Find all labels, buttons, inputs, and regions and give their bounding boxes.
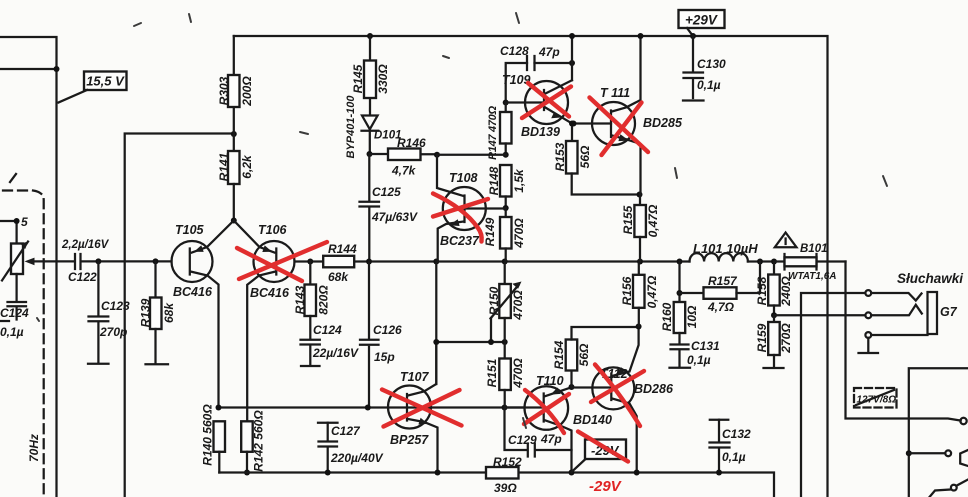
wire feedback line from R303/R141 node bbox=[125, 131, 237, 497]
resistor R142 bbox=[241, 410, 265, 476]
svg-text:0,47Ω: 0,47Ω bbox=[645, 275, 659, 308]
svg-text:470Ω: 470Ω bbox=[511, 290, 525, 321]
svg-text:0,47Ω: 0,47Ω bbox=[646, 204, 660, 237]
transistor T112 bbox=[572, 324, 674, 476]
red X over T108 bbox=[433, 194, 488, 242]
svg-text:C124: C124 bbox=[313, 323, 342, 337]
svg-text:T 111: T 111 bbox=[600, 86, 630, 100]
diode D101 bbox=[345, 95, 402, 159]
capacitor C123 bbox=[89, 261, 109, 362]
svg-text:R151: R151 bbox=[485, 358, 499, 387]
svg-text:22µ/16V: 22µ/16V bbox=[312, 346, 359, 360]
capacitor C125 bbox=[360, 154, 418, 262]
svg-text:15p: 15p bbox=[374, 350, 395, 364]
capacitor C129 bbox=[505, 408, 572, 457]
svg-text:68k: 68k bbox=[328, 270, 349, 284]
svg-text:BC416: BC416 bbox=[250, 286, 290, 300]
wire T107 collector net to R150/R151 bbox=[433, 262, 507, 385]
resistor R149 bbox=[483, 208, 526, 262]
svg-text:270p: 270p bbox=[99, 325, 127, 339]
svg-text:R148: R148 bbox=[487, 166, 501, 195]
resistor R156 bbox=[620, 262, 659, 327]
ground bbox=[764, 367, 784, 369]
svg-text:B101: B101 bbox=[800, 243, 828, 255]
headphone jack G7 bbox=[865, 290, 937, 351]
svg-text:C122: C122 bbox=[68, 270, 97, 284]
svg-text:R141: R141 bbox=[217, 152, 231, 181]
svg-text:330Ω: 330Ω bbox=[376, 64, 390, 94]
svg-text:R149: R149 bbox=[483, 217, 497, 246]
svg-text:R160: R160 bbox=[660, 302, 674, 331]
label Sluchawki bbox=[897, 271, 963, 286]
svg-text:R156: R156 bbox=[620, 276, 634, 305]
svg-text:BD285: BD285 bbox=[643, 116, 683, 130]
svg-text:0,1µ: 0,1µ bbox=[0, 325, 24, 339]
capacitor C128 bbox=[500, 44, 575, 106]
svg-text:R139: R139 bbox=[139, 298, 153, 327]
svg-text:R146: R146 bbox=[397, 136, 426, 150]
svg-text:R155: R155 bbox=[621, 205, 635, 234]
red X over T109 bbox=[522, 83, 571, 118]
svg-text:R145: R145 bbox=[351, 64, 365, 93]
svg-text:68k: 68k bbox=[162, 302, 176, 323]
svg-text:T107: T107 bbox=[400, 370, 430, 384]
svg-text:470Ω: 470Ω bbox=[512, 218, 526, 249]
resistor R148 bbox=[487, 165, 526, 211]
svg-text:C124: C124 bbox=[0, 306, 29, 320]
svg-text:R303: R303 bbox=[217, 76, 231, 105]
resistor R140 bbox=[201, 404, 226, 473]
svg-text:T106: T106 bbox=[258, 223, 288, 237]
svg-text:R159: R159 bbox=[755, 323, 769, 352]
svg-text:C131: C131 bbox=[691, 339, 720, 353]
wire bottom right switch fragments bbox=[930, 450, 968, 497]
svg-text:BP257: BP257 bbox=[390, 433, 429, 447]
inductor L101 bbox=[690, 241, 778, 265]
svg-text:240Ω: 240Ω bbox=[779, 276, 793, 307]
transistor T111 bbox=[571, 33, 683, 195]
svg-text:220µ/40V: 220µ/40V bbox=[330, 451, 384, 465]
svg-text:2,2µ/16V: 2,2µ/16V bbox=[61, 239, 110, 251]
svg-text:0,1µ: 0,1µ bbox=[697, 78, 721, 92]
svg-text:10Ω: 10Ω bbox=[685, 305, 699, 328]
capacitor C130 bbox=[684, 36, 704, 98]
resistor R141 bbox=[217, 151, 254, 224]
label -29V box bbox=[572, 432, 629, 473]
svg-text:6,2k: 6,2k bbox=[240, 154, 254, 179]
ground bbox=[670, 367, 691, 369]
svg-text:-29V: -29V bbox=[589, 478, 623, 495]
capacitor C124 (0,1µ) bbox=[8, 302, 27, 320]
fuse B101 bbox=[774, 243, 846, 282]
resistor R155 bbox=[621, 195, 660, 262]
capacitor C124 (22µ/16V) bbox=[301, 340, 320, 365]
resistor R159 bbox=[768, 315, 780, 366]
svg-text:BD286: BD286 bbox=[634, 382, 674, 396]
resistor R160 bbox=[660, 262, 699, 344]
svg-text:C130: C130 bbox=[697, 57, 726, 71]
svg-text:56Ω: 56Ω bbox=[577, 343, 591, 366]
ground bbox=[0, 320, 9, 322]
capacitor C122 bbox=[61, 239, 110, 284]
capacitor C132 bbox=[710, 420, 752, 476]
svg-text:C125: C125 bbox=[372, 185, 401, 199]
svg-text:WTAT1,6A: WTAT1,6A bbox=[788, 271, 837, 282]
svg-text:T109: T109 bbox=[502, 73, 531, 87]
capacitor C126 bbox=[360, 262, 402, 408]
ground bbox=[859, 352, 879, 354]
svg-text:47p: 47p bbox=[538, 45, 560, 59]
label 70Hz bbox=[27, 434, 41, 462]
wire top-left corner box bbox=[0, 37, 60, 497]
wire fuse output to bottom connector bbox=[846, 262, 967, 425]
resistor R139 bbox=[150, 261, 162, 362]
svg-text:BYP401-100: BYP401-100 bbox=[345, 95, 357, 159]
svg-text:0,1µ: 0,1µ bbox=[722, 450, 746, 464]
resistor R152 bbox=[486, 455, 522, 495]
svg-text:C127: C127 bbox=[331, 424, 361, 438]
stray scan marks bbox=[37, 13, 887, 428]
svg-text:70Hz: 70Hz bbox=[27, 434, 41, 462]
svg-text:R157: R157 bbox=[708, 274, 738, 288]
svg-text:C128: C128 bbox=[500, 44, 529, 58]
red label -29V bbox=[589, 478, 623, 495]
resistor R154 bbox=[552, 327, 639, 387]
svg-text:1,5k: 1,5k bbox=[512, 168, 526, 193]
svg-text:15,5 V: 15,5 V bbox=[86, 74, 125, 89]
svg-text:4,7Ω: 4,7Ω bbox=[707, 300, 735, 314]
svg-text:BD139: BD139 bbox=[521, 125, 560, 139]
svg-text:L101 10µH: L101 10µH bbox=[693, 241, 758, 256]
resistor R146 bbox=[370, 136, 441, 178]
svg-text:BD140: BD140 bbox=[573, 413, 612, 427]
dashed section boundary bbox=[3, 174, 44, 497]
resistor R147 bbox=[437, 103, 512, 160]
resistor R145 bbox=[351, 33, 390, 115]
resistor R153 bbox=[553, 124, 643, 198]
transistor T106 bbox=[234, 221, 295, 422]
ground bbox=[88, 363, 109, 365]
wire right section connector column bbox=[906, 368, 968, 497]
svg-text:270Ω: 270Ω bbox=[779, 323, 793, 354]
capacitor C127 bbox=[318, 423, 384, 476]
svg-text:R142 560Ω: R142 560Ω bbox=[252, 410, 266, 472]
label 15,5V bbox=[59, 72, 127, 103]
svg-text:4,7k: 4,7k bbox=[391, 164, 417, 178]
svg-text:200Ω: 200Ω bbox=[240, 76, 254, 107]
wire mid signal/output rail bbox=[34, 258, 690, 264]
svg-text:Słuchawki: Słuchawki bbox=[897, 271, 963, 286]
red X over T110 bbox=[524, 390, 569, 433]
svg-text:47p: 47p bbox=[540, 432, 562, 446]
svg-text:39Ω: 39Ω bbox=[494, 481, 517, 495]
label 127V/8 ohm box bbox=[854, 388, 897, 408]
svg-text:BC237: BC237 bbox=[440, 234, 480, 248]
wire base line y=407.5 bbox=[216, 405, 525, 411]
resistor R144 bbox=[323, 242, 357, 284]
svg-text:R154: R154 bbox=[552, 340, 566, 369]
resistor R143 bbox=[293, 262, 331, 339]
svg-text:R150: R150 bbox=[487, 286, 501, 315]
svg-text:820Ω: 820Ω bbox=[317, 285, 331, 315]
red X over T111 bbox=[590, 98, 649, 156]
transistor T110 bbox=[505, 374, 612, 476]
ground bbox=[146, 363, 169, 365]
resistor R157 bbox=[680, 262, 761, 315]
potentiometer input bbox=[0, 215, 35, 301]
wire +29V top rail bbox=[234, 36, 828, 497]
svg-text:BC416: BC416 bbox=[173, 285, 213, 299]
transistor T109 bbox=[502, 33, 575, 139]
svg-text:R152: R152 bbox=[493, 455, 522, 469]
resistor R151 bbox=[485, 342, 525, 408]
capacitor C131 bbox=[671, 345, 689, 367]
svg-text:5: 5 bbox=[21, 215, 28, 229]
wire bottom -29V rail bbox=[219, 473, 774, 497]
svg-text:C126: C126 bbox=[373, 323, 402, 337]
svg-text:T108: T108 bbox=[449, 171, 478, 185]
transistor T107 bbox=[388, 342, 441, 476]
svg-text:56Ω: 56Ω bbox=[578, 145, 592, 168]
svg-text:T110: T110 bbox=[536, 374, 564, 388]
svg-text:C132: C132 bbox=[722, 427, 751, 441]
red X over T106 bbox=[237, 242, 327, 281]
red X over T112 bbox=[591, 365, 644, 427]
svg-text:R140 560Ω: R140 560Ω bbox=[201, 404, 215, 466]
warning triangle bbox=[775, 233, 797, 248]
label +29V box bbox=[679, 10, 725, 39]
resistor R158 bbox=[755, 262, 793, 319]
svg-text:R143: R143 bbox=[293, 285, 307, 314]
svg-text:+29V: +29V bbox=[685, 13, 718, 28]
svg-text:T105: T105 bbox=[175, 223, 205, 237]
ground bbox=[683, 99, 704, 101]
transistor T105 bbox=[172, 221, 234, 408]
wire headphone feed lines bbox=[774, 293, 865, 497]
svg-text:R158: R158 bbox=[755, 276, 769, 305]
red X over T107 bbox=[382, 390, 462, 427]
resistor R303 bbox=[217, 36, 254, 151]
svg-text:R153: R153 bbox=[553, 142, 567, 171]
svg-text:G7: G7 bbox=[940, 305, 958, 319]
svg-text:C129: C129 bbox=[508, 433, 537, 447]
svg-text:C123: C123 bbox=[101, 299, 130, 313]
svg-text:R144: R144 bbox=[328, 242, 357, 256]
transistor T108 bbox=[437, 155, 506, 262]
svg-text:0,1µ: 0,1µ bbox=[687, 353, 711, 367]
svg-text:470Ω: 470Ω bbox=[511, 358, 525, 389]
resistor R150 (trimmer) bbox=[487, 262, 525, 343]
svg-text:47µ/63V: 47µ/63V bbox=[371, 210, 418, 224]
ground bbox=[301, 365, 320, 367]
svg-text:R147 470Ω: R147 470Ω bbox=[487, 105, 499, 159]
